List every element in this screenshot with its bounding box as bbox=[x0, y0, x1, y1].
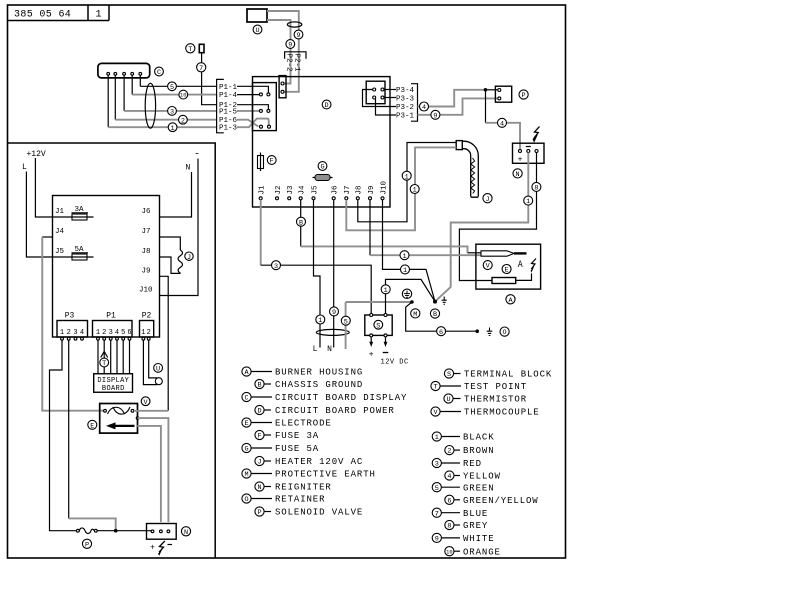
terminal block S bbox=[365, 315, 392, 335]
svg-text:FUSE 3A: FUSE 3A bbox=[275, 431, 319, 441]
svg-text:TEST POINT: TEST POINT bbox=[464, 382, 527, 392]
svg-text:9: 9 bbox=[332, 309, 336, 317]
wire marker 1 bbox=[402, 171, 411, 181]
svg-text:O: O bbox=[503, 329, 507, 337]
svg-text:1: 1 bbox=[318, 317, 322, 325]
svg-text:N: N bbox=[516, 171, 520, 179]
label B bbox=[430, 309, 439, 319]
wire junction down to reigniter bbox=[485, 90, 487, 123]
svg-text:P2-1: P2-1 bbox=[293, 54, 301, 73]
svg-text:T: T bbox=[102, 360, 106, 368]
wire N pin2 down-left to chassis ground bbox=[435, 153, 528, 302]
wire N to J6 bbox=[160, 172, 192, 217]
label D bbox=[322, 100, 331, 110]
wire minus to J10 bbox=[160, 159, 199, 296]
svg-text:10: 10 bbox=[180, 93, 186, 99]
wire P3 pin1 to solenoid switch bbox=[50, 340, 77, 531]
green/yellow wire 6 to retainer bbox=[406, 302, 478, 331]
svg-text:5: 5 bbox=[344, 318, 348, 326]
svg-text:YELLOW: YELLOW bbox=[463, 472, 501, 482]
svg-text:SOLENOID VALVE: SOLENOID VALVE bbox=[275, 508, 363, 518]
svg-text:F: F bbox=[257, 433, 261, 441]
legend S terminal block bbox=[444, 369, 552, 380]
wire J4 down bbox=[300, 200, 302, 247]
svg-text:J7: J7 bbox=[142, 228, 151, 236]
wire junction bbox=[484, 88, 488, 92]
wire S pin2 to chassis ground bbox=[386, 279, 436, 313]
connector P2 on board bbox=[279, 76, 286, 98]
earth symbol bbox=[442, 297, 447, 305]
svg-text:ORANGE: ORANGE bbox=[463, 547, 501, 557]
svg-text:1: 1 bbox=[60, 329, 64, 337]
label C bbox=[155, 67, 164, 77]
legend 10 orange bbox=[445, 547, 501, 558]
wire L to J5 bbox=[26, 172, 93, 258]
svg-text:CIRCUIT BOARD POWER: CIRCUIT BOARD POWER bbox=[275, 406, 395, 416]
P1 digits bbox=[96, 329, 132, 337]
circuit board power D outline bbox=[253, 77, 391, 207]
label J bbox=[185, 252, 193, 262]
connector bracket P2 bbox=[285, 52, 306, 59]
wire marker 2 bbox=[179, 115, 188, 125]
label N bbox=[181, 527, 190, 537]
label U bbox=[154, 364, 163, 374]
svg-text:J4: J4 bbox=[299, 185, 307, 195]
svg-text:1: 1 bbox=[405, 173, 409, 181]
svg-text:D: D bbox=[257, 408, 261, 416]
wire J10 to chassis ground bbox=[383, 200, 436, 302]
svg-text:B: B bbox=[299, 219, 303, 227]
svg-text:+: + bbox=[369, 351, 374, 360]
svg-text:10: 10 bbox=[446, 549, 452, 555]
wire J4 stub bbox=[42, 236, 52, 238]
S box pins bbox=[370, 314, 387, 337]
svg-text:BLUE: BLUE bbox=[463, 509, 488, 519]
svg-text:P3-4: P3-4 bbox=[396, 87, 415, 95]
label N bbox=[513, 169, 522, 179]
svg-text:BROWN: BROWN bbox=[463, 446, 495, 456]
svg-text:J1: J1 bbox=[55, 208, 65, 216]
P3 digits bbox=[60, 329, 84, 337]
svg-text:1: 1 bbox=[435, 434, 439, 442]
spark symbol bbox=[534, 127, 540, 139]
svg-text:2: 2 bbox=[181, 117, 185, 125]
svg-text:5: 5 bbox=[170, 84, 174, 92]
connector P3 on board bbox=[366, 81, 385, 104]
svg-text:5: 5 bbox=[435, 485, 439, 493]
legend T test point bbox=[431, 381, 527, 392]
label P bbox=[82, 539, 91, 549]
svg-text:N: N bbox=[184, 529, 188, 537]
P2 digits bbox=[141, 329, 151, 337]
label P bbox=[519, 90, 528, 100]
svg-text:J5: J5 bbox=[55, 248, 65, 256]
fuse 5A bbox=[72, 246, 89, 260]
svg-text:J: J bbox=[257, 459, 261, 467]
legend N reigniter bbox=[255, 482, 332, 493]
label M bbox=[411, 309, 420, 319]
wire row P1-4 bbox=[132, 94, 217, 96]
wire marker 9 bbox=[330, 307, 339, 317]
wire J8 to heater coil bbox=[160, 257, 181, 273]
svg-text:G: G bbox=[244, 446, 248, 454]
wire J7 to heater coil bbox=[160, 237, 181, 250]
svg-text:S: S bbox=[447, 371, 451, 379]
wires P1 pins to display board bbox=[97, 340, 99, 374]
svg-text:P2: P2 bbox=[142, 312, 152, 321]
connector P1 on board bbox=[253, 83, 277, 131]
svg-text:REIGNITER: REIGNITER bbox=[275, 483, 332, 493]
legend 8 grey bbox=[445, 520, 488, 531]
solenoid valve P box bbox=[495, 86, 511, 102]
svg-text:J8: J8 bbox=[142, 248, 151, 256]
svg-text:+: + bbox=[150, 544, 155, 553]
electrode bbox=[492, 278, 516, 284]
svg-text:E: E bbox=[244, 420, 248, 428]
svg-text:GREY: GREY bbox=[463, 521, 488, 531]
svg-text:6: 6 bbox=[127, 329, 131, 337]
svg-text:P3-3: P3-3 bbox=[396, 95, 415, 103]
test point chevron bbox=[101, 352, 108, 358]
svg-text:+: + bbox=[518, 156, 523, 165]
earth lead (green) bbox=[345, 302, 347, 349]
legend 3 red bbox=[432, 458, 482, 469]
reigniter N box (left) bbox=[147, 524, 177, 540]
label B bbox=[297, 217, 306, 227]
spark symbol bbox=[531, 259, 536, 270]
test point T bbox=[186, 44, 195, 54]
svg-text:9: 9 bbox=[433, 112, 437, 120]
12V DC arrows bbox=[369, 337, 387, 347]
legend U thermistor bbox=[444, 394, 527, 405]
svg-text:P3: P3 bbox=[65, 312, 75, 321]
svg-text:3: 3 bbox=[435, 461, 439, 469]
wire marker 4 bbox=[498, 118, 507, 128]
svg-text:U: U bbox=[446, 396, 450, 404]
wire P2 pin2 to thermistor bbox=[149, 340, 157, 378]
svg-text:8: 8 bbox=[447, 523, 451, 531]
legend O retainer bbox=[242, 494, 326, 505]
svg-text:BOARD: BOARD bbox=[102, 385, 125, 393]
label T bbox=[100, 358, 109, 368]
legend 5 green bbox=[432, 483, 494, 494]
connector pins bbox=[61, 337, 151, 340]
svg-text:P3-2: P3-2 bbox=[396, 104, 414, 112]
svg-text:GREEN: GREEN bbox=[463, 483, 495, 493]
thermocouple interrupter box bbox=[100, 404, 138, 434]
P box pins bbox=[498, 89, 501, 100]
svg-text:J4: J4 bbox=[55, 228, 65, 236]
wire +12V to J1 bbox=[35, 158, 93, 217]
legend F fuse 3A bbox=[255, 430, 319, 441]
svg-text:P: P bbox=[522, 92, 526, 100]
svg-text:C: C bbox=[157, 69, 161, 77]
legend V thermocouple bbox=[431, 407, 540, 418]
wires from connector C pins bbox=[139, 75, 141, 86]
P3 board pins bbox=[373, 88, 384, 99]
svg-text:PROTECTIVE EARTH: PROTECTIVE EARTH bbox=[275, 470, 376, 480]
svg-text:N: N bbox=[257, 484, 261, 492]
fuse 3A bbox=[72, 206, 89, 220]
wire marker 1 bbox=[168, 123, 177, 133]
wire P3-1 to solenoid bbox=[418, 98, 498, 114]
svg-text:J10: J10 bbox=[380, 180, 388, 194]
wire marker 1 bbox=[316, 315, 325, 325]
svg-text:1: 1 bbox=[403, 267, 407, 275]
wire P1-1 to board pin bbox=[237, 86, 268, 93]
svg-text:J1: J1 bbox=[259, 185, 267, 195]
connector P2 bbox=[140, 321, 154, 338]
svg-text:P1-5: P1-5 bbox=[219, 108, 238, 116]
pins of connector C bbox=[107, 72, 142, 75]
svg-text:E: E bbox=[90, 422, 94, 430]
svg-text:P1-1: P1-1 bbox=[219, 84, 238, 92]
svg-text:M: M bbox=[244, 471, 248, 479]
svg-text:HEATER 120V AC: HEATER 120V AC bbox=[275, 457, 363, 467]
wire P2 pin1 to thermistor bbox=[143, 340, 157, 385]
svg-text:L: L bbox=[22, 163, 27, 172]
wire row P1-5 bbox=[124, 110, 217, 112]
test pin bbox=[199, 44, 204, 52]
junction bbox=[114, 529, 118, 533]
svg-text:J2: J2 bbox=[275, 185, 283, 194]
svg-text:GREEN/YELLOW: GREEN/YELLOW bbox=[463, 496, 539, 506]
junction protective earth bbox=[410, 300, 414, 304]
svg-text:T: T bbox=[433, 384, 437, 392]
wire marker 5 bbox=[168, 82, 177, 92]
fuse G on board bbox=[313, 175, 333, 181]
display board box bbox=[94, 374, 133, 393]
label V bbox=[141, 397, 150, 407]
svg-text:J: J bbox=[485, 196, 489, 204]
wire marker 9 bbox=[294, 30, 303, 40]
P3 wire to label P3-3 bbox=[384, 97, 396, 99]
wire P1-3 to board pin (cross) bbox=[237, 119, 269, 128]
svg-text:3: 3 bbox=[170, 109, 174, 117]
svg-text:J6: J6 bbox=[142, 208, 152, 216]
wire marker 1 bbox=[400, 251, 409, 261]
connector P1 bbox=[93, 321, 133, 338]
P3 wire to label P3-1 bbox=[376, 99, 397, 115]
fuse F on board bbox=[258, 153, 264, 172]
label S bbox=[374, 320, 383, 330]
label A bbox=[506, 295, 515, 305]
legend 6 green/yellow bbox=[445, 495, 539, 506]
junction on valve bbox=[136, 416, 140, 420]
wire dot to P box pin1 bbox=[486, 89, 498, 91]
legend B chassis ground bbox=[255, 379, 363, 390]
svg-text:385 05 64: 385 05 64 bbox=[14, 10, 71, 21]
wire J1 down bbox=[260, 200, 262, 265]
svg-text:+12V: +12V bbox=[27, 150, 46, 159]
svg-text:1: 1 bbox=[96, 329, 100, 337]
heater 120V AC element J bbox=[456, 141, 478, 198]
svg-text:M: M bbox=[413, 311, 417, 319]
wire marker 5 bbox=[341, 316, 350, 326]
svg-text:THERMISTOR: THERMISTOR bbox=[464, 395, 527, 405]
earth wire to protective earth dot bbox=[346, 301, 412, 303]
svg-text:12V DC: 12V DC bbox=[381, 359, 409, 367]
svg-text:2: 2 bbox=[67, 329, 71, 337]
svg-text:J: J bbox=[187, 254, 191, 262]
wire P3 pin2 to junction bbox=[68, 340, 70, 518]
svg-text:D: D bbox=[325, 102, 329, 110]
bracket P1 labels bbox=[217, 79, 224, 132]
legend G fuse 5A bbox=[242, 443, 319, 454]
wire row P1-1 bbox=[140, 85, 217, 87]
wire test point to P1-2 bbox=[202, 53, 217, 105]
legend A burner housing bbox=[242, 367, 363, 378]
wire to terminal block + bbox=[261, 265, 372, 313]
svg-text:3: 3 bbox=[109, 329, 113, 337]
drawing frame bbox=[8, 5, 566, 558]
legend M protective earth bbox=[242, 469, 376, 480]
svg-text:J7: J7 bbox=[344, 185, 352, 194]
svg-text:J10: J10 bbox=[139, 287, 153, 295]
connector C (display cable plug) bbox=[98, 63, 150, 78]
svg-text:J9: J9 bbox=[142, 268, 151, 276]
svg-text:THERMOCOUPLE: THERMOCOUPLE bbox=[464, 408, 540, 418]
svg-text:P3-1: P3-1 bbox=[396, 113, 415, 121]
svg-text:9: 9 bbox=[296, 32, 300, 40]
svg-text:E: E bbox=[505, 267, 509, 275]
legend 2 brown bbox=[445, 446, 495, 457]
wire marker 1 bbox=[401, 265, 410, 275]
wire marker 6 bbox=[437, 327, 446, 337]
wire marker 10 bbox=[179, 90, 188, 99]
legend P solenoid valve bbox=[255, 507, 363, 518]
svg-text:S: S bbox=[376, 322, 380, 330]
wire marker 1 bbox=[410, 185, 419, 195]
wire N pin3 to electrode bbox=[459, 153, 536, 281]
legend E electrode bbox=[242, 418, 332, 429]
svg-text:1: 1 bbox=[413, 187, 417, 195]
svg-text:2: 2 bbox=[102, 329, 106, 337]
svg-text:P1-3: P1-3 bbox=[219, 125, 238, 133]
wire J6 to N bbox=[333, 200, 335, 348]
svg-text:C: C bbox=[244, 395, 248, 403]
label U bbox=[253, 25, 262, 35]
wire valve to reigniter pin3 bbox=[138, 418, 169, 522]
svg-text:P2-2: P2-2 bbox=[285, 54, 293, 72]
P2 board pins bbox=[281, 82, 284, 93]
wire U to P2-2 bbox=[267, 20, 291, 84]
N box pins bbox=[151, 530, 170, 533]
wire marker 3 bbox=[168, 107, 177, 117]
label O bbox=[500, 327, 509, 337]
solenoid switch contacts bbox=[77, 528, 98, 534]
svg-text:2: 2 bbox=[447, 448, 451, 456]
P3 wire to label P3-4 bbox=[384, 89, 396, 91]
thermistor U (top) bbox=[247, 9, 267, 22]
svg-text:P1: P1 bbox=[106, 312, 116, 321]
svg-text:2: 2 bbox=[147, 329, 151, 337]
svg-text:J9: J9 bbox=[368, 185, 376, 194]
label G bbox=[318, 162, 327, 172]
heater feed wire (black) to J8 bbox=[358, 143, 456, 222]
svg-text:P1-4: P1-4 bbox=[219, 92, 238, 100]
svg-text:1: 1 bbox=[141, 329, 145, 337]
svg-text:4: 4 bbox=[447, 473, 451, 481]
svg-text:CHASSIS GROUND: CHASSIS GROUND bbox=[275, 380, 363, 390]
svg-text:DISPLAY: DISPLAY bbox=[97, 377, 129, 385]
svg-text:6: 6 bbox=[439, 329, 443, 337]
svg-text:L: L bbox=[313, 345, 318, 354]
svg-text:N: N bbox=[186, 164, 191, 173]
label E bbox=[88, 420, 97, 430]
inner board outline bbox=[53, 196, 160, 338]
svg-text:3: 3 bbox=[73, 329, 77, 337]
svg-text:1: 1 bbox=[95, 10, 101, 21]
svg-text:1: 1 bbox=[171, 125, 175, 133]
wire P3-2 to solenoid bbox=[418, 90, 486, 107]
svg-text:4: 4 bbox=[500, 120, 504, 128]
cable loop ellipse bbox=[145, 83, 155, 128]
wire switch to reigniter pin1 bbox=[97, 530, 151, 532]
gas valve arrow bbox=[106, 422, 135, 429]
heater feed wire (grey) to J7 bbox=[346, 147, 456, 230]
svg-text:T: T bbox=[188, 46, 192, 54]
svg-text:J6: J6 bbox=[332, 185, 340, 195]
legend J heater bbox=[255, 456, 363, 467]
svg-text:J5: J5 bbox=[311, 185, 319, 195]
svg-text:RETAINER: RETAINER bbox=[275, 495, 325, 505]
interrupter contacts bbox=[104, 407, 134, 414]
svg-text:RED: RED bbox=[463, 459, 482, 469]
interrupter right contact wire bbox=[134, 410, 168, 412]
svg-text:6: 6 bbox=[447, 497, 451, 505]
svg-text:B: B bbox=[433, 311, 437, 319]
svg-text:-: - bbox=[194, 150, 200, 161]
wire marker 8 bbox=[532, 182, 541, 192]
svg-text:3: 3 bbox=[274, 263, 278, 271]
wire row P1-6 bbox=[115, 119, 217, 121]
wire P1-5 to board pin bbox=[237, 110, 259, 112]
legend 9 white bbox=[432, 533, 494, 544]
burner housing A box bbox=[476, 244, 541, 289]
svg-text:4: 4 bbox=[115, 329, 119, 337]
svg-text:J3: J3 bbox=[287, 185, 295, 195]
svg-text:4: 4 bbox=[80, 329, 84, 337]
chassis ground junction bbox=[433, 300, 437, 304]
wire J4 to thermocouple lead 1 bbox=[301, 246, 468, 252]
legend 4 yellow bbox=[445, 471, 501, 482]
wire J9 to thermocouple lead 2 bbox=[369, 200, 371, 255]
wire marker 1 bbox=[381, 285, 390, 295]
circled earth symbol bbox=[402, 289, 411, 298]
svg-text:7: 7 bbox=[199, 65, 203, 73]
svg-text:G: G bbox=[320, 164, 324, 172]
board pins J1-J10 bbox=[259, 197, 384, 200]
legend D circuit board power bbox=[255, 405, 395, 416]
svg-text:B: B bbox=[257, 382, 261, 390]
svg-text:1: 1 bbox=[526, 198, 530, 206]
svg-text:U: U bbox=[156, 366, 160, 374]
svg-text:A: A bbox=[518, 258, 523, 270]
wire J9 down to interrupter bbox=[160, 276, 169, 411]
svg-text:O: O bbox=[244, 496, 248, 504]
svg-text:BURNER HOUSING: BURNER HOUSING bbox=[275, 368, 363, 378]
wire marker 3 bbox=[272, 261, 281, 271]
svg-text:8: 8 bbox=[534, 185, 538, 193]
heater coil symbol bbox=[178, 250, 182, 273]
svg-text:WHITE: WHITE bbox=[463, 534, 495, 544]
svg-text:FUSE 5A: FUSE 5A bbox=[275, 444, 319, 454]
wire marker 4 bbox=[420, 102, 429, 112]
wire marker 1 bbox=[524, 196, 533, 206]
P1 board pins bbox=[259, 93, 270, 128]
P3 wire to label P3-2 bbox=[363, 90, 397, 107]
